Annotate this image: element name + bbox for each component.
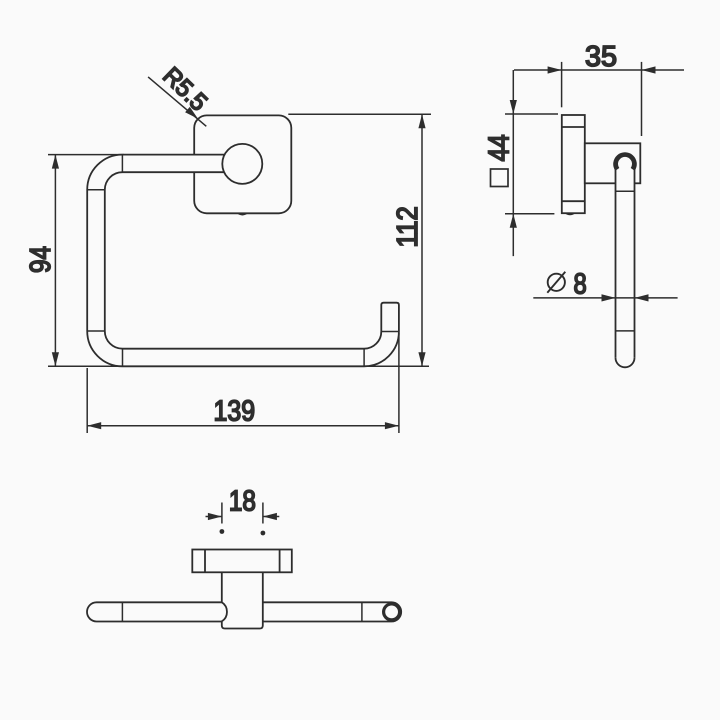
front view bend tangent tick left tube lower: [87, 330, 105, 332]
bottom view bar left cap tangent tick: [121, 602, 123, 621]
dimension 18 line left part: [206, 516, 222, 518]
svg-text:139: 139: [214, 396, 256, 428]
dimension 94 arrow down: [52, 352, 59, 366]
bottom view bar right cap tangent tick: [361, 602, 363, 621]
dimension 35 extension line left: [561, 62, 563, 107]
side view tube tangent tick lower: [616, 330, 635, 332]
front view plate circle (stem boss): [222, 144, 262, 184]
side view plate edge line lower: [562, 200, 585, 202]
dimension 94 / 112 extension line bottom: [48, 365, 429, 367]
dimension 112 arrow up: [418, 114, 425, 128]
dimension 35 extension line right: [641, 62, 643, 136]
front view bend tangent tick bottom tube left: [122, 349, 124, 367]
dimension square44 arrow down: [510, 100, 517, 114]
bottom view bar tube (stadium): [87, 602, 401, 621]
side view tube right edge: [634, 167, 636, 358]
side view hanging tube (white filled with rounded cap): [616, 158, 635, 367]
dimension 112 line: [421, 114, 423, 366]
dimension 35 arrow right-pointing: [548, 66, 562, 73]
front view bend tangent tick left tube upper: [87, 189, 105, 191]
dimension diameter8 arrow left-pointing: [635, 294, 649, 301]
bottom view stem (white filled, covers bar): [222, 573, 263, 628]
side view tube bottom cap: [616, 358, 635, 368]
dimension diameter8 line: [533, 297, 677, 299]
dimension 139 extension line left: [86, 368, 88, 433]
dimension 139 arrow left: [87, 422, 101, 429]
dimension 139 arrow right: [385, 422, 399, 429]
front view bend tangent tick bottom tube right: [363, 349, 365, 367]
side view tube left edge: [615, 167, 617, 358]
dimension 139 extension line right: [398, 333, 400, 433]
front view mounting plate: [194, 115, 291, 213]
front view ring tube (white-filled band): [87, 155, 399, 367]
side view plate edge line upper: [562, 126, 585, 128]
dimension 18 projection dot left: [220, 529, 225, 534]
dimension 18 arrow right-pointing: [208, 513, 222, 520]
dimension diameter8 arrow right-pointing: [602, 294, 616, 301]
side view tube bend arc: [613, 152, 637, 171]
side view mounting plate slab: [562, 115, 585, 213]
dimension 18 extension tick right: [262, 503, 264, 524]
dimension 112 arrow down: [418, 352, 425, 366]
dimension 18 projection dot right: [261, 531, 266, 536]
bottom view plate corner line right: [279, 550, 281, 573]
svg-text:94: 94: [25, 246, 57, 273]
dimension 94 line: [54, 155, 56, 367]
side view arm block: [585, 143, 641, 183]
dimension 18 arrow left-pointing: [263, 513, 277, 520]
front view bend tangent tick hook stub: [381, 331, 399, 333]
dimension diameter8 symbol circle: [548, 274, 565, 291]
dimension 18 line right part: [263, 516, 279, 518]
svg-text:35: 35: [585, 41, 617, 73]
front view bend tangent tick top tube: [121, 155, 123, 173]
radius leader R5.5 line: [148, 77, 206, 126]
svg-text:18: 18: [229, 485, 256, 517]
side view plate bottom screw mark: [565, 213, 576, 215]
dimension diameter8 symbol slash: [547, 272, 565, 293]
bottom view stem outline with tube-crossing arc: [222, 572, 263, 628]
dimension 18 extension tick left: [221, 503, 223, 524]
side view tube tangent tick upper: [616, 190, 635, 192]
dimension 139 line: [87, 425, 399, 427]
svg-text:8: 8: [574, 269, 587, 301]
dimension 35 arrow left-pointing: [642, 66, 656, 73]
svg-text:112: 112: [392, 206, 424, 247]
dimension square44 arrow up: [510, 214, 517, 228]
bottom view plate slab: [192, 550, 291, 573]
front view plate bottom screw mark: [237, 213, 248, 215]
bottom view bar end circle: [384, 604, 400, 620]
dimension 94 arrow up: [52, 155, 59, 169]
dimension square44 square symbol: [491, 169, 509, 187]
dimension 94 extension line top: [48, 154, 124, 156]
dimension 112 extension line top: [288, 113, 431, 115]
radius leader R5.5 arrowhead: [185, 107, 198, 119]
bottom view plate corner line left: [204, 550, 206, 573]
dimension square44 extension line bottom: [505, 213, 554, 215]
dimension square44 line: [512, 70, 514, 256]
dimension square44 extension line top: [505, 113, 558, 115]
svg-text:44: 44: [484, 134, 516, 161]
dimension 35 line: [514, 69, 684, 71]
